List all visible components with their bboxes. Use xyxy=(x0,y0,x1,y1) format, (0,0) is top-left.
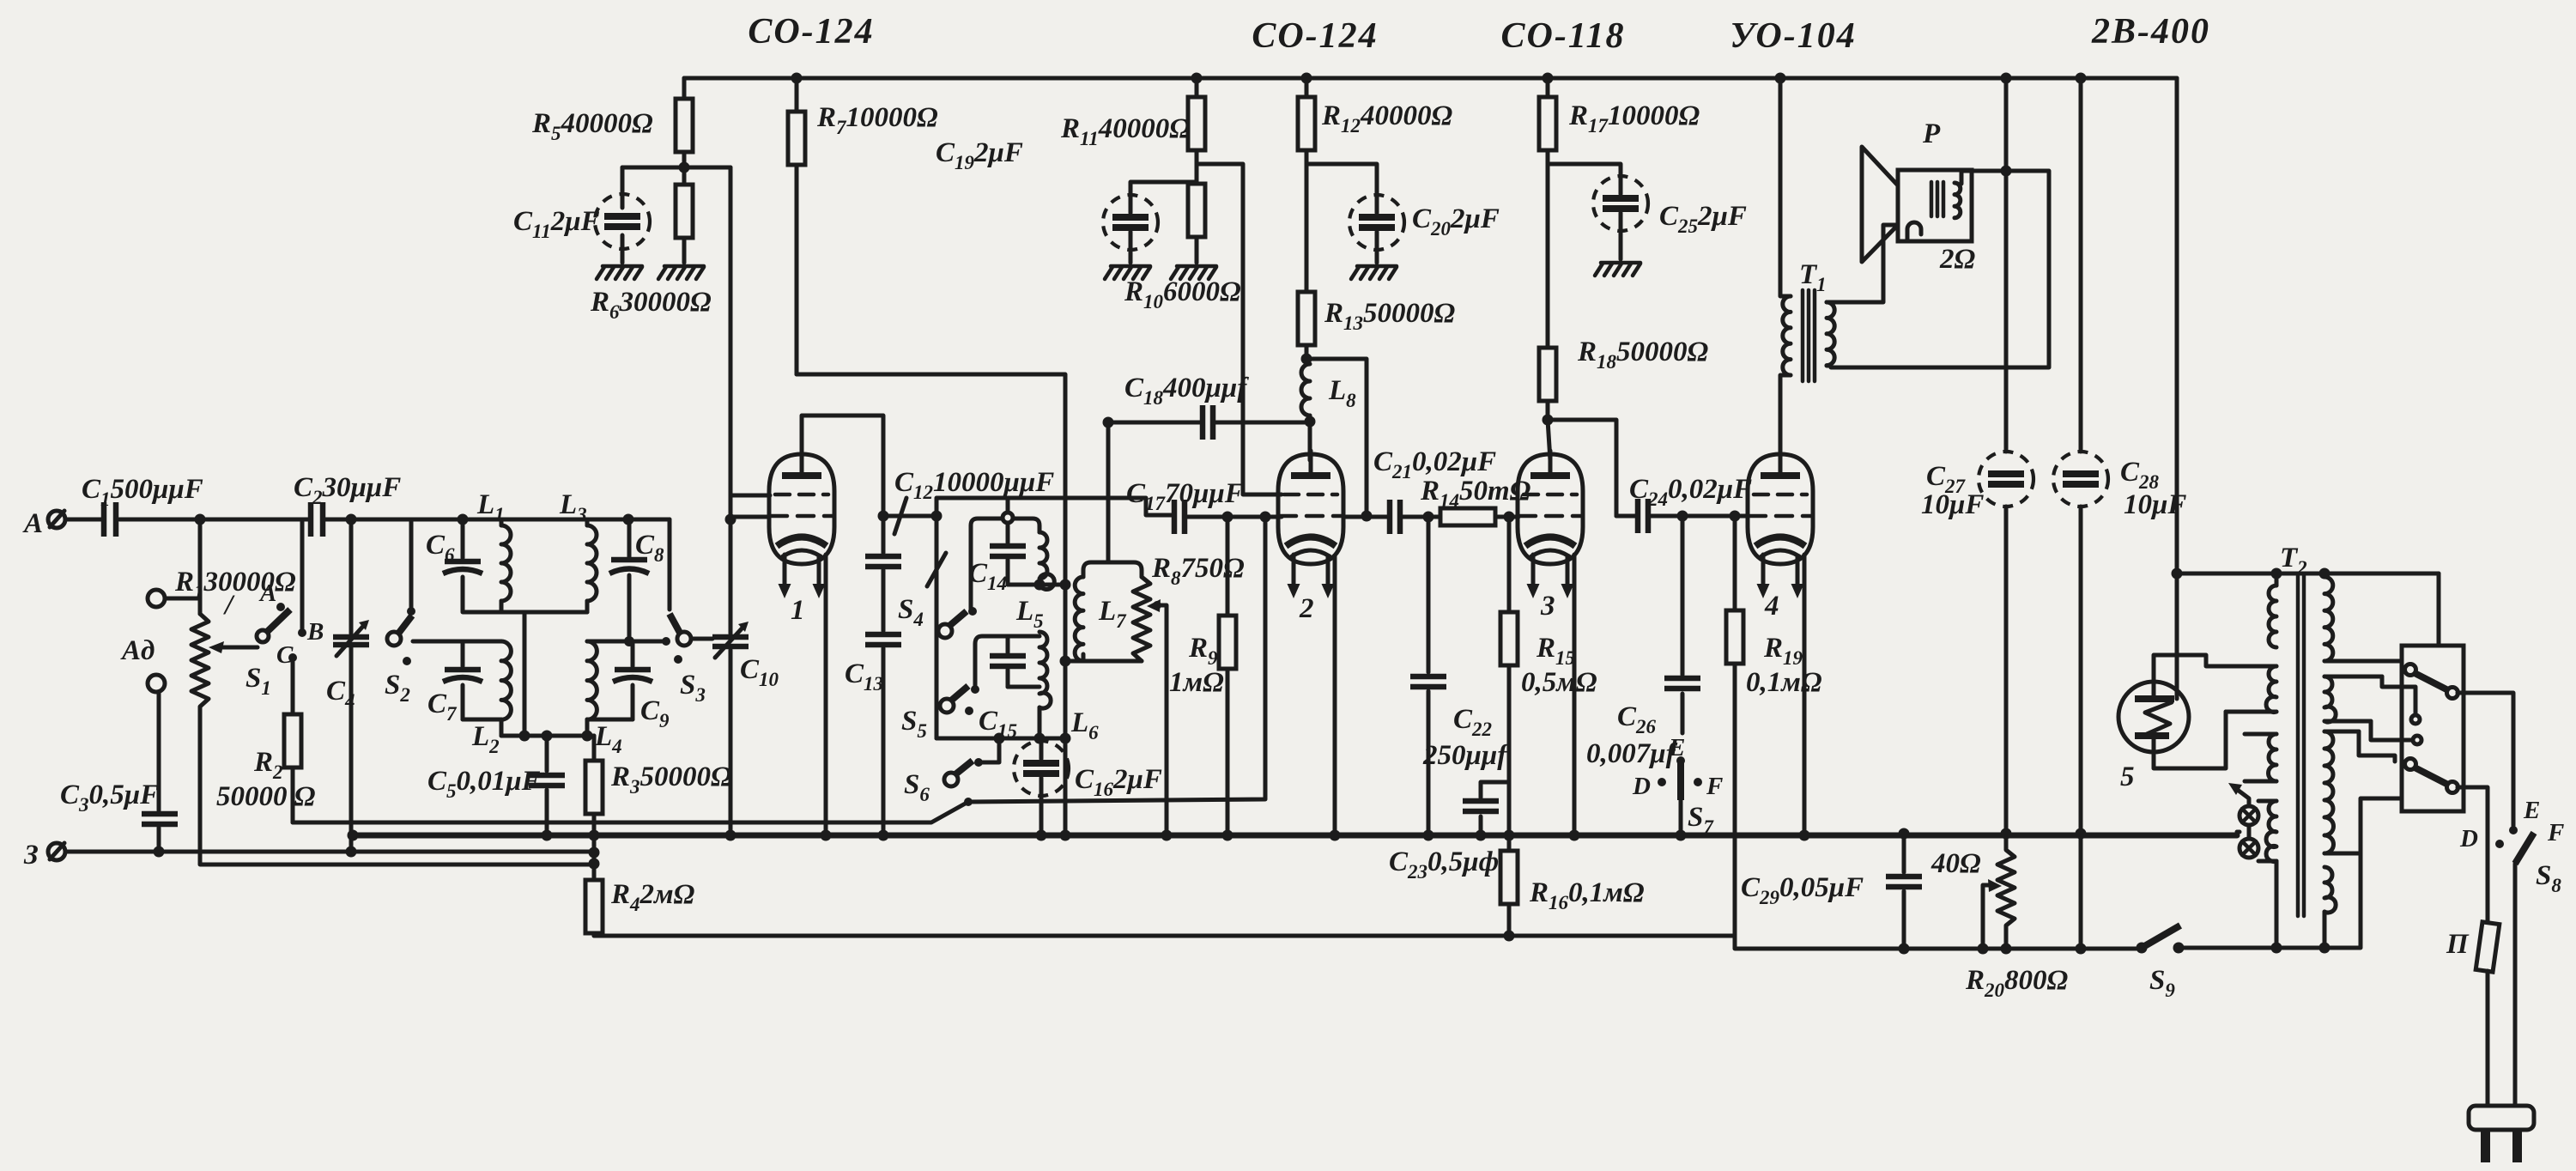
svg-text:C50,01μF: C50,01μF xyxy=(427,766,541,802)
node rail / R13 drop xyxy=(1361,511,1373,522)
svg-text:R106000Ω: R106000Ω xyxy=(1124,276,1241,312)
svg-text:C8: C8 xyxy=(635,530,664,566)
wire: R18 node to C24 rail xyxy=(1548,420,1616,516)
wire: bus end into lamp tap xyxy=(2237,830,2240,834)
wire: C14/L5 bottom rail xyxy=(1008,583,1039,587)
svg-text:0,007μf: 0,007μf xyxy=(1586,738,1678,769)
coil L5 xyxy=(1015,532,1054,632)
svg-text:З: З xyxy=(23,840,39,871)
node on bus at R17 xyxy=(1543,73,1554,84)
resistor R15 0,5МΩ xyxy=(1500,517,1597,851)
node T2 feed / tube 5 xyxy=(2172,568,2183,579)
wire: oscillator output riser and 580 line to C17 xyxy=(936,498,1173,516)
wire: selector to mains right leg xyxy=(2458,693,2513,826)
svg-text:R350000Ω: R350000Ω xyxy=(610,761,732,798)
tube 1 (CO-124 detector) xyxy=(769,451,834,626)
capacitor C26 0,007μF xyxy=(1586,516,1700,769)
tube 4 (УО-104 output) xyxy=(1748,451,1813,622)
wire: tube 1 anode to C12 node xyxy=(802,416,883,516)
svg-text:R20800Ω: R20800Ω xyxy=(1965,965,2069,1001)
svg-text:A: A xyxy=(22,508,43,539)
capacitor C5 0,01μF xyxy=(427,736,565,835)
node speaker / C27 column xyxy=(2001,166,2012,177)
svg-text:F: F xyxy=(1706,773,1723,800)
resistor R18 50000Ω xyxy=(1539,164,1709,420)
capacitor C9 (trimmer) xyxy=(613,641,670,731)
svg-text:3: 3 xyxy=(1540,591,1555,622)
svg-text:D: D xyxy=(2459,825,2478,852)
svg-text:R710000Ω: R710000Ω xyxy=(816,102,938,138)
node R1 line / R4 top xyxy=(589,859,600,870)
node T2 bottom / filament winding xyxy=(2271,943,2282,954)
wire: bias line R19 to S9 xyxy=(1735,936,2142,949)
svg-text:R19: R19 xyxy=(1763,633,1803,669)
T2 filament winding with pilot lamps xyxy=(2258,801,2276,948)
capacitor C23 0,5μF xyxy=(1389,782,1509,883)
svg-text:50000 Ω: 50000 Ω xyxy=(216,781,316,812)
capacitor C7 (trimmer) xyxy=(427,641,482,725)
node bias line / R20 xyxy=(2001,943,2012,955)
capacitor C27 10μF xyxy=(1921,78,2034,834)
potentiometer R1 30000Ω xyxy=(174,519,296,727)
wire: grid return line S6 to tube 2 grid xyxy=(968,517,1265,802)
svg-text:C202μF: C202μF xyxy=(1412,203,1500,240)
svg-text:П: П xyxy=(2446,929,2470,960)
svg-text:C26: C26 xyxy=(1617,701,1657,737)
node bus / R8 wiper xyxy=(1161,830,1173,841)
node bias line / R20 wiper xyxy=(1978,943,1989,955)
svg-text:R1850000Ω: R1850000Ω xyxy=(1577,337,1709,373)
T2 primary winding middle (to tube 5) xyxy=(2226,666,2276,713)
node bus / tube3 cathode xyxy=(1569,830,1580,841)
node main bus / R3R4 column xyxy=(589,830,600,841)
svg-text:L7: L7 xyxy=(1098,596,1127,632)
node R5/R6 xyxy=(679,162,690,173)
svg-text:C10: C10 xyxy=(740,654,779,690)
wiper of R8 xyxy=(1147,599,1167,835)
wiper of R1 xyxy=(209,641,258,653)
node bus / C27 xyxy=(2001,828,2012,840)
svg-text:D: D xyxy=(1632,773,1651,800)
node bus / C4 xyxy=(348,830,359,841)
resistor R11 40000Ω xyxy=(1060,78,1205,164)
svg-text:C1770μμF: C1770μμF xyxy=(1126,478,1244,514)
wire: R13 node to C21 rail xyxy=(1306,359,1367,516)
switch S9 xyxy=(2137,925,2185,1001)
node З line / C3 xyxy=(154,846,165,858)
svg-text:40Ω: 40Ω xyxy=(1930,848,1981,879)
wire: S1 B contact up to antenna rail xyxy=(300,519,305,633)
node bias line / C29 xyxy=(1899,943,1910,955)
wire: Ад upper to R1 top xyxy=(165,597,200,601)
node on bus at R7 xyxy=(791,73,803,84)
fuse П xyxy=(2446,922,2500,1106)
capacitor C6 (trimmer) xyxy=(426,519,482,611)
node C8 leg on L4 rail xyxy=(624,636,634,646)
capacitor C2 30μμF xyxy=(294,472,401,537)
node rail / C22 xyxy=(1423,512,1434,523)
svg-text:T2: T2 xyxy=(2280,543,2307,579)
wire: speaker top to filter columns and T1 secondary bottom xyxy=(1831,171,2049,367)
capacitor C22 250μμF xyxy=(1410,517,1509,835)
node antenna rail / C8 xyxy=(623,514,634,525)
svg-text:C7: C7 xyxy=(427,689,458,725)
wire: R1 bottom line to R4 xyxy=(200,727,594,865)
svg-text:P: P xyxy=(1922,118,1941,149)
svg-text:R2: R2 xyxy=(253,747,283,783)
svg-text:C162μF: C162μF xyxy=(1075,764,1162,800)
svg-text:L1: L1 xyxy=(476,489,505,525)
wire: tube 1 screen feed stub xyxy=(730,494,770,498)
node antenna rail / C6 xyxy=(458,514,469,525)
node bus / C16 xyxy=(1036,830,1047,841)
svg-text:R1140000Ω: R1140000Ω xyxy=(1060,113,1191,149)
node bias line / C28 xyxy=(2076,943,2087,955)
rheostat R8 750Ω xyxy=(1065,553,1245,661)
svg-text:F: F xyxy=(2547,819,2564,846)
svg-text:R8750Ω: R8750Ω xyxy=(1151,553,1245,589)
svg-text:L4: L4 xyxy=(594,721,622,757)
node tank row / L1 leg xyxy=(519,731,530,742)
capacitor C15 xyxy=(975,636,1039,742)
coil L3 xyxy=(559,489,597,612)
pilot lamp 2 xyxy=(2240,839,2258,858)
resistor R14 50тΩ (series) xyxy=(1420,476,1531,525)
svg-text:L3: L3 xyxy=(559,489,587,525)
svg-text:250μμf: 250μμf xyxy=(1422,740,1509,771)
selector switch lever lower xyxy=(2359,731,2458,853)
svg-text:C13: C13 xyxy=(845,658,883,695)
svg-text:A: A xyxy=(258,579,276,607)
wire: tube 3 cathode to bus xyxy=(1573,555,1577,835)
wire: S6 upper contact to block bottom xyxy=(979,738,999,762)
svg-text:4: 4 xyxy=(1764,591,1779,622)
capacitor C11 2μF xyxy=(513,167,650,263)
coil L8 xyxy=(1301,359,1356,422)
wiper of R20 (40Ω tap) xyxy=(1983,879,2002,949)
svg-text:R160,1мΩ: R160,1мΩ xyxy=(1529,877,1645,913)
svg-text:R42мΩ: R42мΩ xyxy=(610,879,695,915)
coil L1 xyxy=(476,489,511,611)
node anode / C12 column xyxy=(878,511,889,522)
wire: T1 secondary top to speaker xyxy=(1831,225,1907,302)
wire: tube 3 anode lead xyxy=(1548,420,1550,460)
loudspeaker P xyxy=(1862,118,1976,275)
lamp tap arrow xyxy=(2228,783,2249,839)
node C1/R1 xyxy=(195,514,206,525)
svg-text:0,5мΩ: 0,5мΩ xyxy=(1521,667,1597,698)
wire: tap to R7 feed column xyxy=(1039,583,1065,587)
node bus / C29 xyxy=(1899,828,1910,840)
svg-text:T1: T1 xyxy=(1799,259,1827,295)
capacitor C3 0,5μF xyxy=(60,780,178,852)
wire: S9 to T2 bottom xyxy=(2179,853,2361,948)
wire: L1/C6 bottom rail xyxy=(463,612,587,736)
wire: top bus drop to T2 xyxy=(2177,78,2439,573)
resistor R9 1МΩ xyxy=(1169,517,1236,835)
svg-text:C240,02μF: C240,02μF xyxy=(1629,474,1752,510)
coil L4 xyxy=(587,641,622,757)
node L7/R8 bottom on right rail xyxy=(1060,656,1071,667)
svg-text:C252μF: C252μF xyxy=(1659,201,1747,237)
node AVC / R16 xyxy=(1504,931,1515,942)
svg-text:R1240000Ω: R1240000Ω xyxy=(1321,100,1453,137)
resistor R5 40000Ω xyxy=(531,78,693,167)
svg-text:L5: L5 xyxy=(1015,596,1044,632)
wire: AVC line R4 to R19 xyxy=(594,934,1735,938)
node bus / C28 xyxy=(2076,828,2087,840)
svg-text:C14: C14 xyxy=(968,558,1007,594)
node oscillator block input xyxy=(931,511,943,522)
svg-text:CO-124: CO-124 xyxy=(1252,16,1378,56)
selector contacts xyxy=(2371,677,2421,744)
T2 secondary winding s4 xyxy=(2324,867,2336,948)
node tank row / L4 xyxy=(582,731,593,742)
svg-text:L2: L2 xyxy=(471,721,500,757)
T2 secondary winding s1 xyxy=(2319,568,2404,662)
resistor R3 50000Ω xyxy=(585,736,732,880)
svg-text:5: 5 xyxy=(2120,761,2135,792)
wire: S4 contact left leg up to L5 top rail xyxy=(971,519,1039,611)
node on bus at R12 xyxy=(1301,73,1312,84)
wire: tube 4 cathode to bus xyxy=(1803,555,1807,835)
resistor R16 0,1МΩ xyxy=(1500,851,1645,936)
rectifier tube 5 (2В-400) xyxy=(2118,573,2276,792)
svg-text:S9: S9 xyxy=(2149,965,2175,1001)
svg-text:C230,5μф: C230,5μф xyxy=(1389,846,1499,883)
svg-text:L8: L8 xyxy=(1328,375,1356,411)
node R7 feed column xyxy=(1060,579,1071,591)
svg-text:1: 1 xyxy=(791,595,805,626)
wire: R7 feed to oscillator block xyxy=(797,374,1065,835)
pilot lamp 1 xyxy=(2240,806,2258,825)
T2 winding lower (tube 5 cathode) xyxy=(2245,734,2276,781)
node З line / R3R4 column xyxy=(589,847,600,859)
wire: rail to C24 xyxy=(1616,514,1636,519)
svg-text:C22: C22 xyxy=(1453,704,1492,740)
svg-text:C30,5μF: C30,5μF xyxy=(60,780,159,816)
node rail / R9 xyxy=(1222,512,1233,523)
svg-text:R9: R9 xyxy=(1188,633,1218,669)
node rail / R19 xyxy=(1730,511,1741,522)
resistor R19 0,1МΩ xyxy=(1726,516,1822,936)
variable capacitor C10 xyxy=(712,622,779,835)
ground below R10 xyxy=(1171,266,1216,279)
wire: Ад lower to C3 xyxy=(157,692,161,810)
variable capacitor C4 xyxy=(326,519,369,852)
wire: tube 1 cathode to bus xyxy=(824,555,828,835)
wire: R11 to tube 2 screen xyxy=(1197,164,1282,494)
node on bus at R11 xyxy=(1191,73,1203,84)
capacitor C21 0,02μF xyxy=(1373,446,1496,534)
wire: B+ top bus xyxy=(684,76,2177,81)
capacitor C16 2μF xyxy=(1014,738,1162,835)
tube 2 (CO-124 amplifier) xyxy=(1278,451,1343,624)
resistor R13 50000Ω xyxy=(1298,164,1456,359)
svg-text:R1350000Ω: R1350000Ω xyxy=(1324,298,1456,334)
node bus / R7 feed column xyxy=(1060,830,1071,841)
ground below R6 xyxy=(658,266,704,279)
svg-text:E: E xyxy=(2523,797,2540,824)
wire: selector to fuse leg xyxy=(2458,787,2488,923)
node tank row / C5 xyxy=(542,731,553,742)
ground below C11 xyxy=(597,266,642,279)
capacitor C25 2μF xyxy=(1548,164,1747,259)
selector switch lever upper xyxy=(2405,664,2458,699)
mains plug xyxy=(2469,1106,2534,1162)
node bus / tube1 cathode xyxy=(821,830,832,841)
transformer T2 core xyxy=(2280,543,2307,916)
capacitor C8 (trimmer) xyxy=(609,519,664,641)
ground below C25 xyxy=(1595,263,1640,276)
coil L2 xyxy=(471,641,511,757)
svg-text:Ад: Ад xyxy=(120,635,155,666)
terminal circle on L5 top rail xyxy=(1003,499,1013,523)
node on bus at C28 column xyxy=(2076,73,2087,84)
node rail / grid return xyxy=(1260,512,1271,523)
capacitor C18 400μμF xyxy=(1108,373,1310,440)
wire: main ground bus xyxy=(353,833,2237,839)
ground below C20 xyxy=(1351,266,1397,279)
svg-text:C18400μμf: C18400μμf xyxy=(1124,373,1249,409)
node block bottom / right rail xyxy=(1060,733,1071,744)
svg-text:S4: S4 xyxy=(898,594,924,630)
switch S7 selector D-E-F xyxy=(1632,734,1723,838)
svg-text:C9: C9 xyxy=(640,695,670,731)
svg-text:C192μF: C192μF xyxy=(936,137,1023,173)
wire: L4/C9 rails xyxy=(587,641,664,719)
node block bottom / L6 xyxy=(1034,733,1046,744)
rheostat R20 800Ω with 40Ω tap xyxy=(1930,835,2069,1001)
wire: rail tube2 to C21 xyxy=(1345,515,1388,519)
capacitor C29 0,05μF xyxy=(1741,834,1922,949)
wire: tube 2 cathode to bus xyxy=(1333,556,1337,835)
capacitor C24 0,02μF xyxy=(1629,474,1752,533)
switch S4 xyxy=(898,553,977,638)
wire: oscillator block bottom rail xyxy=(936,737,1065,741)
node L5/L6 tap xyxy=(1034,579,1046,591)
svg-text:2Ω: 2Ω xyxy=(1939,244,1976,275)
wire: screen node of tube 1 xyxy=(622,166,730,170)
wire: antenna rail xyxy=(200,518,670,522)
wire: tube 2 anode lead xyxy=(1308,422,1312,460)
ground below C19 xyxy=(1105,266,1150,279)
svg-text:CO-124: CO-124 xyxy=(748,12,874,52)
coil L6 xyxy=(1039,632,1099,743)
svg-text:R15: R15 xyxy=(1536,633,1575,669)
resistor R12 40000Ω xyxy=(1298,78,1453,164)
oscillator block left rail xyxy=(935,516,939,738)
svg-text:E: E xyxy=(1668,734,1685,761)
node bus / grid column xyxy=(725,830,736,841)
node bus / tube2 cathode xyxy=(1330,830,1341,841)
svg-text:0,1мΩ: 0,1мΩ xyxy=(1746,667,1822,698)
node R18 / tube 3 anode xyxy=(1543,415,1554,426)
resistor R7 10000Ω xyxy=(788,78,938,374)
node bus / C23 xyxy=(1476,830,1487,841)
svg-text:S1: S1 xyxy=(245,663,271,699)
node block bottom / S6 riser xyxy=(994,733,1005,744)
terminal З (ground post) xyxy=(23,840,65,871)
resistor R10 6000Ω xyxy=(1124,164,1241,312)
capacitor C19 2μF xyxy=(936,137,1197,263)
resistor R2 50000Ω xyxy=(216,714,316,822)
wire: tank common node row xyxy=(463,719,594,736)
wire: S1 C contact to R2 xyxy=(291,658,295,714)
node T2 bottom / s4 xyxy=(2319,943,2331,954)
terminal Ад upper xyxy=(148,590,165,607)
svg-text:C290,05μF: C290,05μF xyxy=(1741,872,1864,908)
svg-text:S6: S6 xyxy=(904,769,930,805)
wire: anode node to oscillator block xyxy=(883,514,936,519)
svg-text:1мΩ: 1мΩ xyxy=(1169,667,1224,698)
node on bus at speaker column xyxy=(2001,73,2012,84)
capacitor C14 xyxy=(968,523,1026,594)
svg-text:S2: S2 xyxy=(385,670,410,706)
capacitor C17 70μμF xyxy=(1126,478,1282,534)
node rail / R15 xyxy=(1504,512,1515,523)
svg-text:10μF: 10μF xyxy=(1921,489,1984,520)
terminal A (antenna) xyxy=(22,508,65,539)
voltage selector block xyxy=(2402,573,2464,811)
switch S5 xyxy=(901,685,979,742)
node on grid column xyxy=(725,514,736,525)
node bus / C22 xyxy=(1423,830,1434,841)
node L8 / C18 / tube2 anode xyxy=(1305,416,1316,428)
svg-text:S8: S8 xyxy=(2536,860,2561,896)
svg-text:L6: L6 xyxy=(1070,707,1099,743)
coil L7 xyxy=(1075,562,1142,661)
svg-text:R1450тΩ: R1450тΩ xyxy=(1420,476,1531,512)
svg-text:CO-118: CO-118 xyxy=(1500,16,1625,56)
svg-text:R630000Ω: R630000Ω xyxy=(590,287,712,323)
svg-text:УО-104: УО-104 xyxy=(1730,16,1856,56)
tube 3 (CO-118) xyxy=(1518,451,1583,622)
node bus / tube4 cathode xyxy=(1799,830,1810,841)
capacitor C13 xyxy=(845,634,901,835)
T2 secondary winding s3 xyxy=(2324,731,2361,853)
node bus / R15-R16 xyxy=(1504,830,1515,841)
svg-text:C112μF: C112μF xyxy=(513,206,600,242)
node C18 line / L7 riser xyxy=(1103,417,1114,428)
svg-text:C6: C6 xyxy=(426,530,455,566)
svg-text:S3: S3 xyxy=(680,670,706,706)
resistor R4 2МΩ xyxy=(585,879,695,936)
capacitor C28 10μF xyxy=(2053,78,2186,949)
node bus / C13 xyxy=(878,830,889,841)
svg-text:B: B xyxy=(306,618,324,646)
capacitor C1 500μμF xyxy=(65,474,203,537)
node bus / C5 xyxy=(542,830,553,841)
wire: tube 1 grid stub xyxy=(730,515,769,519)
resistor R17 10000Ω xyxy=(1539,78,1700,164)
switch S6 xyxy=(904,758,983,806)
resistor R6 30000Ω xyxy=(590,167,712,323)
node antenna rail / C4 xyxy=(346,514,357,525)
switch S1 xyxy=(245,579,324,699)
node R13/L8 xyxy=(1301,354,1312,365)
wire: З line xyxy=(65,850,594,854)
wire: R2 to S6 (regeneration return) xyxy=(293,802,968,822)
wire: L7/R8 top riser to C18 line xyxy=(1106,422,1111,562)
node rail / C26 xyxy=(1677,511,1688,522)
svg-text:C28: C28 xyxy=(2120,457,2160,493)
capacitor C20 2μF xyxy=(1306,164,1500,263)
node bus / R9 xyxy=(1222,830,1233,841)
transformer T1 xyxy=(1780,78,1834,454)
svg-text:C1500μμF: C1500μμF xyxy=(82,474,203,510)
node З line / C4 xyxy=(346,846,357,858)
